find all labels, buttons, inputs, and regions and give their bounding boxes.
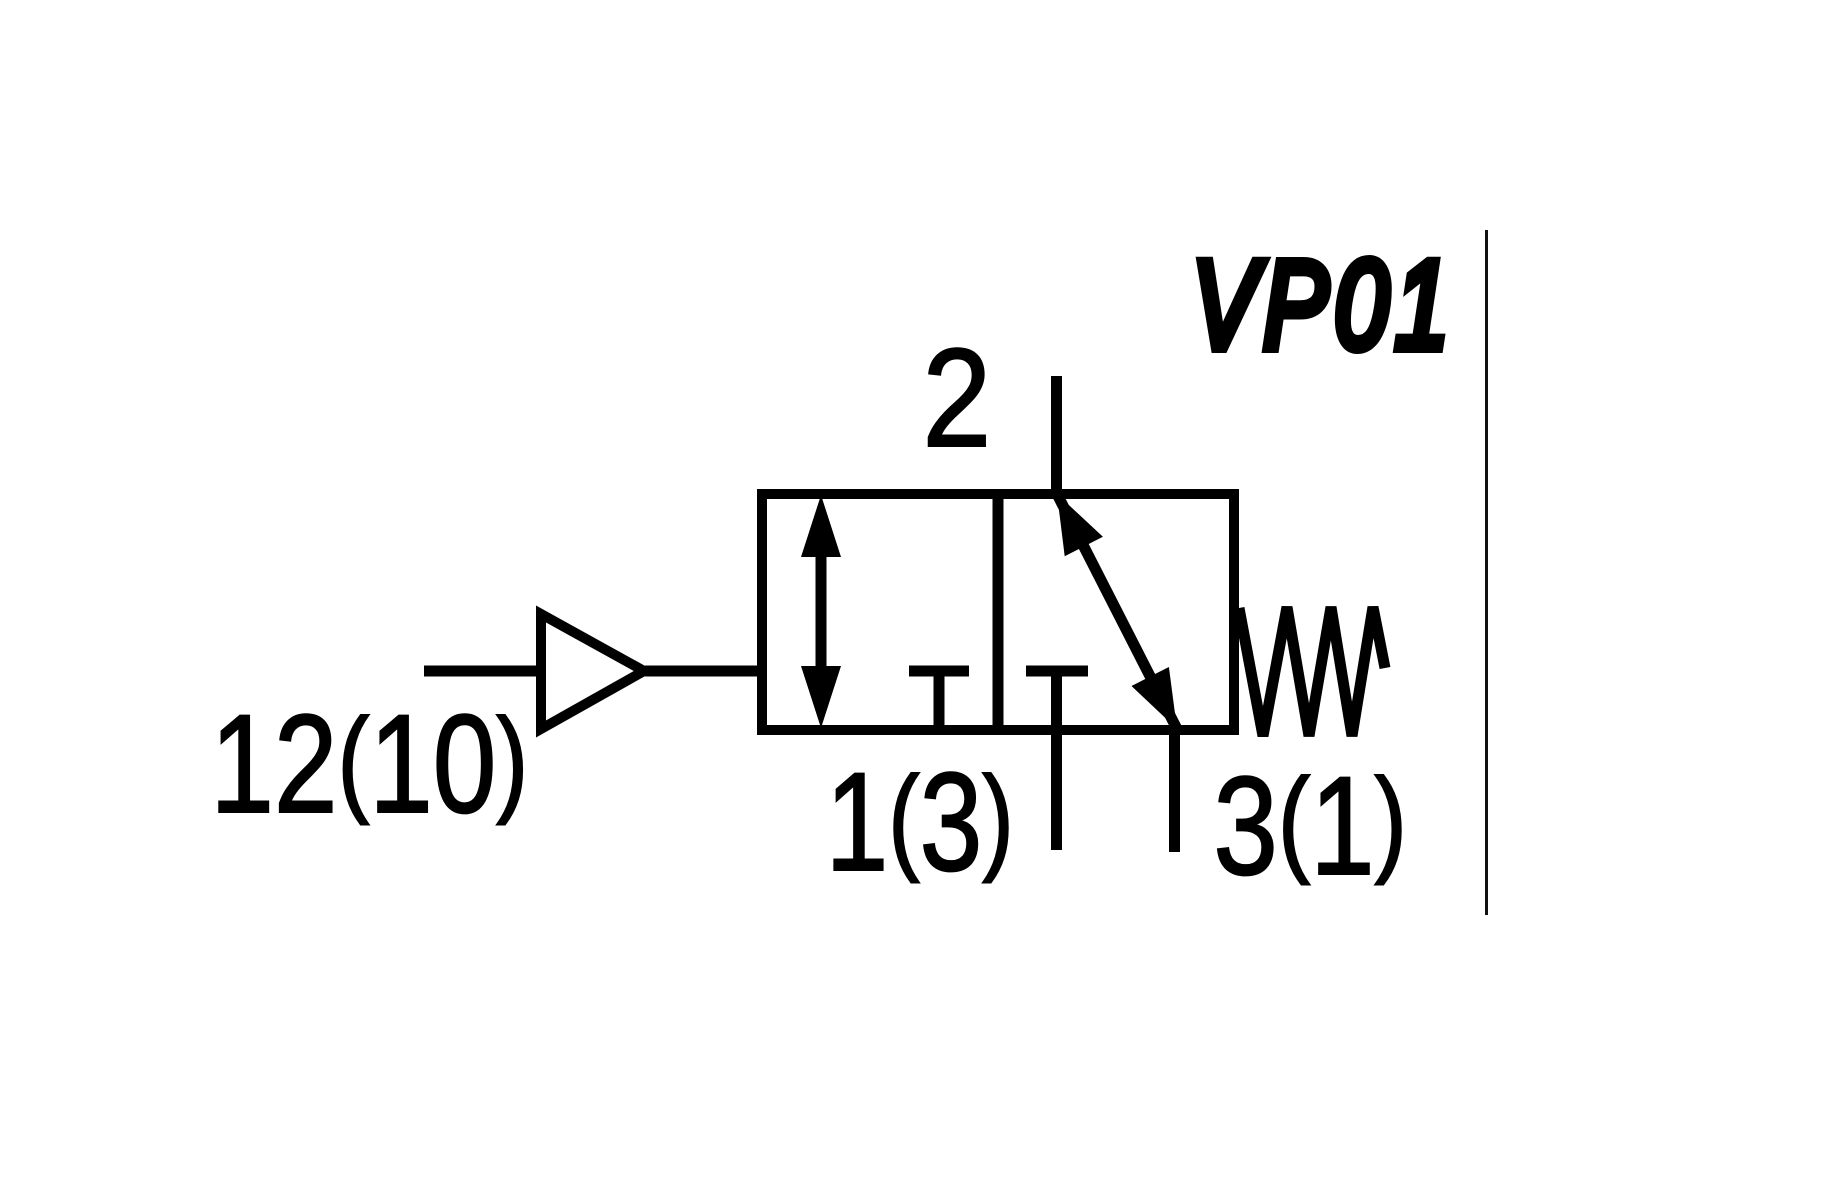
port 2 line xyxy=(1051,376,1062,499)
svg-text:12(10): 12(10) xyxy=(210,686,528,843)
box divider xyxy=(993,494,1004,730)
valve body box (two positions) xyxy=(762,494,1234,730)
svg-text:VP01: VP01 xyxy=(1192,234,1455,375)
svg-text:1(3): 1(3) xyxy=(826,743,1014,899)
svg-text:2: 2 xyxy=(922,320,991,477)
pilot actuator triangle xyxy=(541,614,644,729)
frame border line (right) xyxy=(1485,230,1488,915)
pilot wire left xyxy=(424,666,547,677)
diagonal flow arrow (right box) xyxy=(1057,494,1177,729)
port line 3(1) below box xyxy=(1169,730,1180,852)
blocked port T (left box) xyxy=(909,671,969,728)
svg-text:3(1): 3(1) xyxy=(1213,749,1406,905)
blocked port T (right box) + port line below xyxy=(1026,671,1088,850)
wire triangle to box xyxy=(645,666,762,677)
left box vertical double arrow xyxy=(801,495,841,728)
return spring xyxy=(1239,607,1385,736)
